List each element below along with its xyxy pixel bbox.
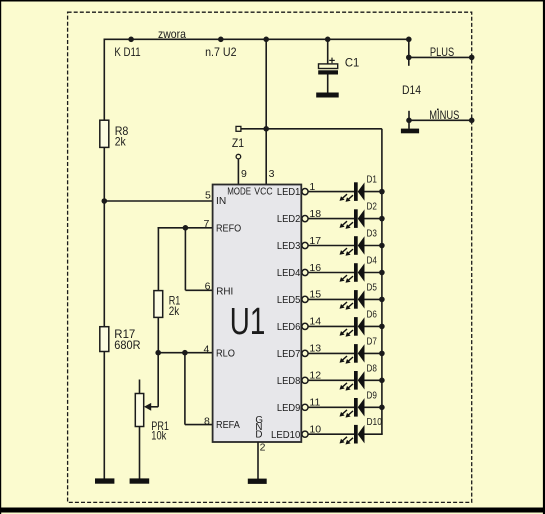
pin 17 connector circle (302, 242, 308, 248)
svg-text:9: 9 (241, 168, 247, 180)
junction: D4 at bus (379, 270, 385, 276)
wire: REFA into U1 pin 8 (185, 424, 213, 426)
junction: D8 at bus (379, 378, 385, 384)
board outline (dashed) (68, 12, 472, 502)
svg-text:IN: IN (216, 196, 226, 207)
pin 14 connector circle (302, 323, 308, 329)
node: K D11 jumper terminal (128, 37, 134, 43)
svg-text:RHI: RHI (216, 286, 233, 297)
wire: rail corner down (D14 anode stub) (408, 39, 410, 66)
wire: U1 pin 16 to D4 cathode (308, 272, 354, 274)
LED D10 (340, 425, 365, 445)
wire: U1 pin 12 to D8 cathode (308, 379, 354, 381)
wire: D2 anode to bus (365, 218, 383, 220)
svg-text:680R: 680R (114, 338, 141, 352)
LED D3 (340, 236, 365, 256)
junction: D2 at bus (379, 216, 385, 222)
wire: wiper horizontal (151, 406, 159, 408)
junction: Z1 line x VCC (263, 126, 269, 132)
svg-text:D1: D1 (367, 174, 378, 186)
LED D1 (340, 182, 365, 202)
resistor R8 (100, 120, 109, 147)
wire: R1 to RLO line (157, 317, 159, 352)
junction: D6 at bus (379, 324, 385, 330)
wire: U1 pin 14 to D6 cathode (308, 325, 354, 327)
svg-text:D9: D9 (367, 389, 378, 401)
svg-text:3: 3 (269, 168, 275, 180)
svg-text:7: 7 (203, 218, 209, 230)
pin 10 connector circle (302, 431, 308, 437)
svg-text:D10: D10 (367, 416, 383, 428)
wire: U1 pin 1 to D1 cathode (308, 191, 354, 193)
ground (U1 GND) (248, 479, 267, 484)
wire: U1 pin 13 to D7 cathode (308, 352, 354, 354)
node: PLUS at board edge (469, 55, 475, 61)
svg-text:8: 8 (204, 416, 210, 428)
potentiometer PR1 body (135, 394, 143, 427)
svg-text:PLUS: PLUS (430, 45, 454, 59)
wire: VCC down to U1 pin 3 (265, 39, 267, 184)
svg-text:LED7: LED7 (277, 349, 301, 360)
pin 18 connector circle (302, 216, 308, 222)
pin 13 connector circle (302, 350, 308, 356)
svg-text:REFA: REFA (216, 420, 240, 431)
junction: D5 at bus (379, 297, 385, 303)
wire: D5 anode to bus (365, 298, 383, 300)
pin 11 connector circle (302, 404, 308, 410)
ground (PR1) (130, 478, 150, 483)
wire: D1 anode to bus (365, 191, 383, 193)
wire: U1 pin 4 RLO to left (158, 352, 213, 354)
terminal: Z1 top pad (236, 126, 241, 131)
svg-text:D6: D6 (367, 308, 378, 320)
wire: D8 anode to bus (365, 379, 383, 381)
junction: REFO-RHI tie (183, 225, 189, 231)
ground (C1) (316, 93, 339, 98)
svg-text:D2: D2 (367, 201, 378, 213)
svg-text:RLO: RLO (216, 349, 235, 360)
wire: MINUS to ground (408, 120, 410, 129)
pin 15 connector circle (302, 296, 308, 302)
svg-text:K D11: K D11 (114, 45, 140, 59)
wire: U1 pin 15 to D5 cathode (308, 298, 354, 300)
node: n.7 U2 jumper terminal (218, 37, 224, 43)
svg-text:LED1: LED1 (277, 187, 301, 198)
wire: MINUS (409, 119, 472, 121)
wire: D6 anode to bus (365, 325, 383, 327)
pin 1 connector circle (302, 189, 308, 195)
wire: D10 anode to bus (365, 433, 383, 435)
pin 16 connector circle (302, 269, 308, 275)
capacitor C1 (318, 58, 338, 75)
wire: R17 to ground (103, 352, 105, 479)
svg-text:Z1: Z1 (232, 136, 244, 150)
wire: PR1 to ground (139, 427, 141, 479)
svg-text:U1: U1 (230, 301, 265, 343)
svg-text:D3: D3 (367, 228, 378, 240)
wire: +V top rail (104, 38, 409, 40)
svg-text:D7: D7 (367, 335, 378, 347)
LED D4 (340, 263, 365, 283)
junction: D1 at bus (379, 189, 385, 195)
wire: RLO node down to PR1 wiper (157, 353, 159, 407)
svg-text:LED8: LED8 (277, 376, 301, 387)
wire: D7 anode to bus (365, 352, 383, 354)
junction: RLO-REFA tie (182, 350, 188, 356)
wire: REFO corner down to R1 (157, 227, 159, 291)
svg-text:REFO: REFO (216, 224, 241, 235)
LED D6 (340, 317, 365, 337)
wire: Z1 line to LED bus (241, 128, 382, 130)
junction: PLUS node (406, 55, 412, 61)
svg-text:LED10: LED10 (271, 430, 301, 441)
op-amp / driver U1 body (213, 185, 302, 443)
wire: R8 to R17 (through IN node) (103, 147, 105, 326)
LED D7 (340, 344, 365, 364)
wire: D9 anode to bus (365, 406, 383, 408)
wire: PR1 top stub (139, 380, 141, 394)
terminal: Z1 bottom pin (236, 154, 241, 159)
svg-text:LED2: LED2 (277, 214, 301, 225)
svg-text:LED9: LED9 (277, 403, 301, 414)
svg-text:n.7 U2: n.7 U2 (205, 45, 237, 59)
svg-text:C1: C1 (345, 55, 360, 69)
wire: IN node to U1 pin 5 (104, 200, 212, 202)
svg-text:D8: D8 (367, 362, 378, 374)
LED D9 (340, 398, 365, 418)
svg-text:2: 2 (260, 442, 266, 454)
svg-text:10k: 10k (151, 429, 167, 443)
junction: D3 at bus (379, 243, 385, 249)
ground (left rail) (95, 478, 114, 483)
svg-text:D: D (255, 430, 262, 441)
svg-text:D14: D14 (402, 83, 421, 97)
junction: D9 at bus (379, 405, 385, 411)
svg-text:D5: D5 (367, 281, 378, 293)
wire: U1 pin 18 to D2 cathode (308, 218, 354, 220)
svg-text:4: 4 (203, 344, 209, 356)
wire: RHI into U1 pin 6 (185, 289, 212, 291)
pin 12 connector circle (302, 377, 308, 383)
wire: C1 to ground (327, 75, 329, 93)
svg-text:LED5: LED5 (277, 295, 301, 306)
junction: rail to C1 (325, 37, 331, 43)
svg-text:LED6: LED6 (277, 322, 301, 333)
wire: U1 pin 17 to D3 cathode (308, 245, 354, 247)
svg-text:zwora: zwora (158, 27, 186, 41)
wire: U1 pin 7 REFO to left corner (158, 227, 213, 229)
junction: IN node (102, 198, 108, 204)
wire: U1 pin 2 GND stub (257, 442, 259, 479)
resistor R17 (100, 327, 109, 352)
wire: LED anode bus (381, 129, 383, 434)
junction: D7 at bus (379, 351, 385, 357)
svg-text:LED3: LED3 (277, 241, 301, 252)
wire: D4 anode to bus (365, 272, 383, 274)
wire: left rail down to R8 (103, 39, 105, 121)
wire: D3 anode to bus (365, 245, 383, 247)
ground (MINUS) (401, 129, 419, 134)
resistor R1 (154, 291, 163, 318)
wire: tie down to REFA (184, 353, 186, 425)
svg-text:6: 6 (205, 280, 211, 292)
svg-text:2k: 2k (169, 304, 180, 318)
wire: U1 pin 10 to D10 cathode (308, 433, 354, 435)
svg-text:D4: D4 (367, 255, 378, 267)
svg-text:LED4: LED4 (277, 268, 301, 279)
wire: Z1 pin to U1 pin 9 MODE (237, 159, 239, 185)
LED D8 (340, 371, 365, 391)
junction: RLO at R1/wiper (155, 350, 161, 356)
potentiometer PR1 wiper arrow (144, 403, 151, 411)
junction: rail corner (406, 37, 412, 43)
LED D5 (340, 290, 365, 310)
svg-text:2k: 2k (115, 135, 127, 149)
junction: rail to VCC (263, 37, 269, 43)
svg-text:MODE: MODE (227, 186, 251, 197)
junction: MINUS node (406, 118, 412, 124)
wire: U1 pin 11 to D9 cathode (308, 406, 354, 408)
wire: PLUS (409, 56, 472, 58)
wire: D14 cathode stub (408, 111, 410, 121)
LED D2 (340, 209, 365, 229)
wire: rail down to C1 (327, 39, 329, 64)
wire: tie down to RHI (184, 228, 186, 290)
svg-text:MINUS: MINUS (429, 108, 459, 122)
node: MINUS at board edge (469, 118, 475, 124)
svg-text:5: 5 (205, 190, 211, 202)
svg-text:VCC: VCC (254, 186, 272, 197)
